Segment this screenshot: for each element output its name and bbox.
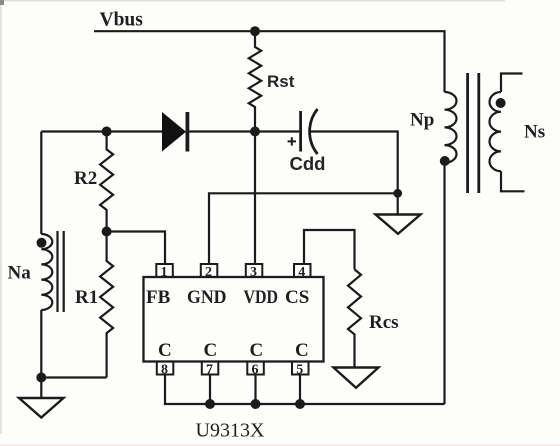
svg-text:CS: CS: [285, 287, 309, 308]
svg-text:2: 2: [205, 265, 212, 280]
wire to pin1 FB: [107, 232, 165, 265]
resistor R2: [100, 132, 113, 232]
wire anode side (left horizontal rail): [41, 130, 162, 132]
wire pin6 drop: [254, 375, 256, 405]
pin 1: [156, 264, 173, 280]
pin 3: [246, 264, 262, 280]
node GND-net junction: [393, 189, 402, 198]
svg-text:VDD: VDD: [244, 287, 279, 308]
core transformer: [468, 73, 479, 193]
svg-text:R2: R2: [74, 168, 97, 189]
winding Na: [41, 234, 52, 310]
wire Vbus top rail: [94, 31, 445, 92]
pin 8: [157, 362, 174, 378]
svg-text:C: C: [204, 340, 218, 361]
svg-text:GND: GND: [187, 287, 227, 308]
svg-text:Rst: Rst: [267, 72, 295, 91]
ground (below Cdd): [376, 215, 421, 234]
wire Ns bottom stub: [501, 171, 525, 191]
node Np phase dot: [440, 156, 450, 166]
wire Ns top stub: [501, 74, 523, 93]
node ground junction: [36, 373, 46, 383]
wire Na top (left vertical): [40, 132, 42, 235]
resistor R1: [100, 232, 113, 378]
wire pin7 drop: [209, 375, 211, 405]
svg-text:Vbus: Vbus: [100, 10, 144, 31]
diode D1: [162, 112, 187, 152]
node Ns phase dot: [496, 98, 506, 108]
resistor Rcs: [348, 269, 361, 367]
svg-text:C: C: [250, 340, 264, 361]
svg-text:Na: Na: [8, 263, 32, 284]
wire pin3 VDD riser: [254, 132, 256, 265]
resistor Rst: [249, 31, 261, 131]
svg-text:FB: FB: [146, 287, 171, 308]
wire Cdd to ground drop: [310, 132, 398, 214]
op-amp U1 body: [144, 277, 324, 362]
wire R1 bottom to ground rail: [41, 376, 106, 378]
node pin7/rail: [205, 399, 215, 409]
svg-text:Ns: Ns: [524, 122, 545, 143]
node R2/R1/FB junction: [102, 227, 112, 237]
node R2/diode junction: [102, 127, 112, 137]
pin 5: [292, 362, 309, 378]
wire pin8 to bottom rail: [165, 375, 445, 405]
svg-text:4: 4: [298, 265, 305, 280]
svg-text:Rcs: Rcs: [369, 312, 399, 333]
svg-text:Np: Np: [410, 110, 434, 131]
node diode/Rst/Cdd/VDD junction: [250, 127, 260, 137]
node pin5/rail: [295, 399, 305, 409]
wire pin2 GND net: [209, 193, 398, 264]
svg-text:C: C: [295, 340, 309, 361]
node Vbus/Rst junction: [250, 26, 260, 36]
wire pin4 CS to Rcs: [304, 230, 355, 269]
capacitor Cdd: [288, 109, 318, 154]
ground (bottom left): [19, 398, 64, 418]
pin 7: [202, 362, 219, 378]
wire cathode to Cdd: [189, 130, 299, 132]
wire pin5 drop: [299, 375, 301, 405]
pin 4: [294, 264, 311, 280]
pin 6: [247, 362, 263, 378]
pin 2: [201, 264, 218, 280]
svg-text:1: 1: [161, 265, 168, 280]
wire ground stub: [40, 378, 42, 398]
svg-text:R1: R1: [75, 287, 98, 308]
winding Ns: [490, 92, 501, 171]
svg-text:C: C: [158, 340, 172, 361]
winding Np: [445, 92, 457, 163]
wire Na bottom: [40, 310, 42, 378]
svg-text:3: 3: [250, 265, 257, 280]
core Na: [58, 231, 64, 312]
svg-text:Cdd: Cdd: [290, 153, 326, 174]
ground (below Rcs): [334, 368, 379, 388]
wire Np bottom to rail: [443, 163, 445, 404]
node pin6/rail: [251, 399, 261, 409]
node Na phase dot: [37, 238, 47, 248]
svg-text:U9313X: U9313X: [196, 420, 265, 442]
